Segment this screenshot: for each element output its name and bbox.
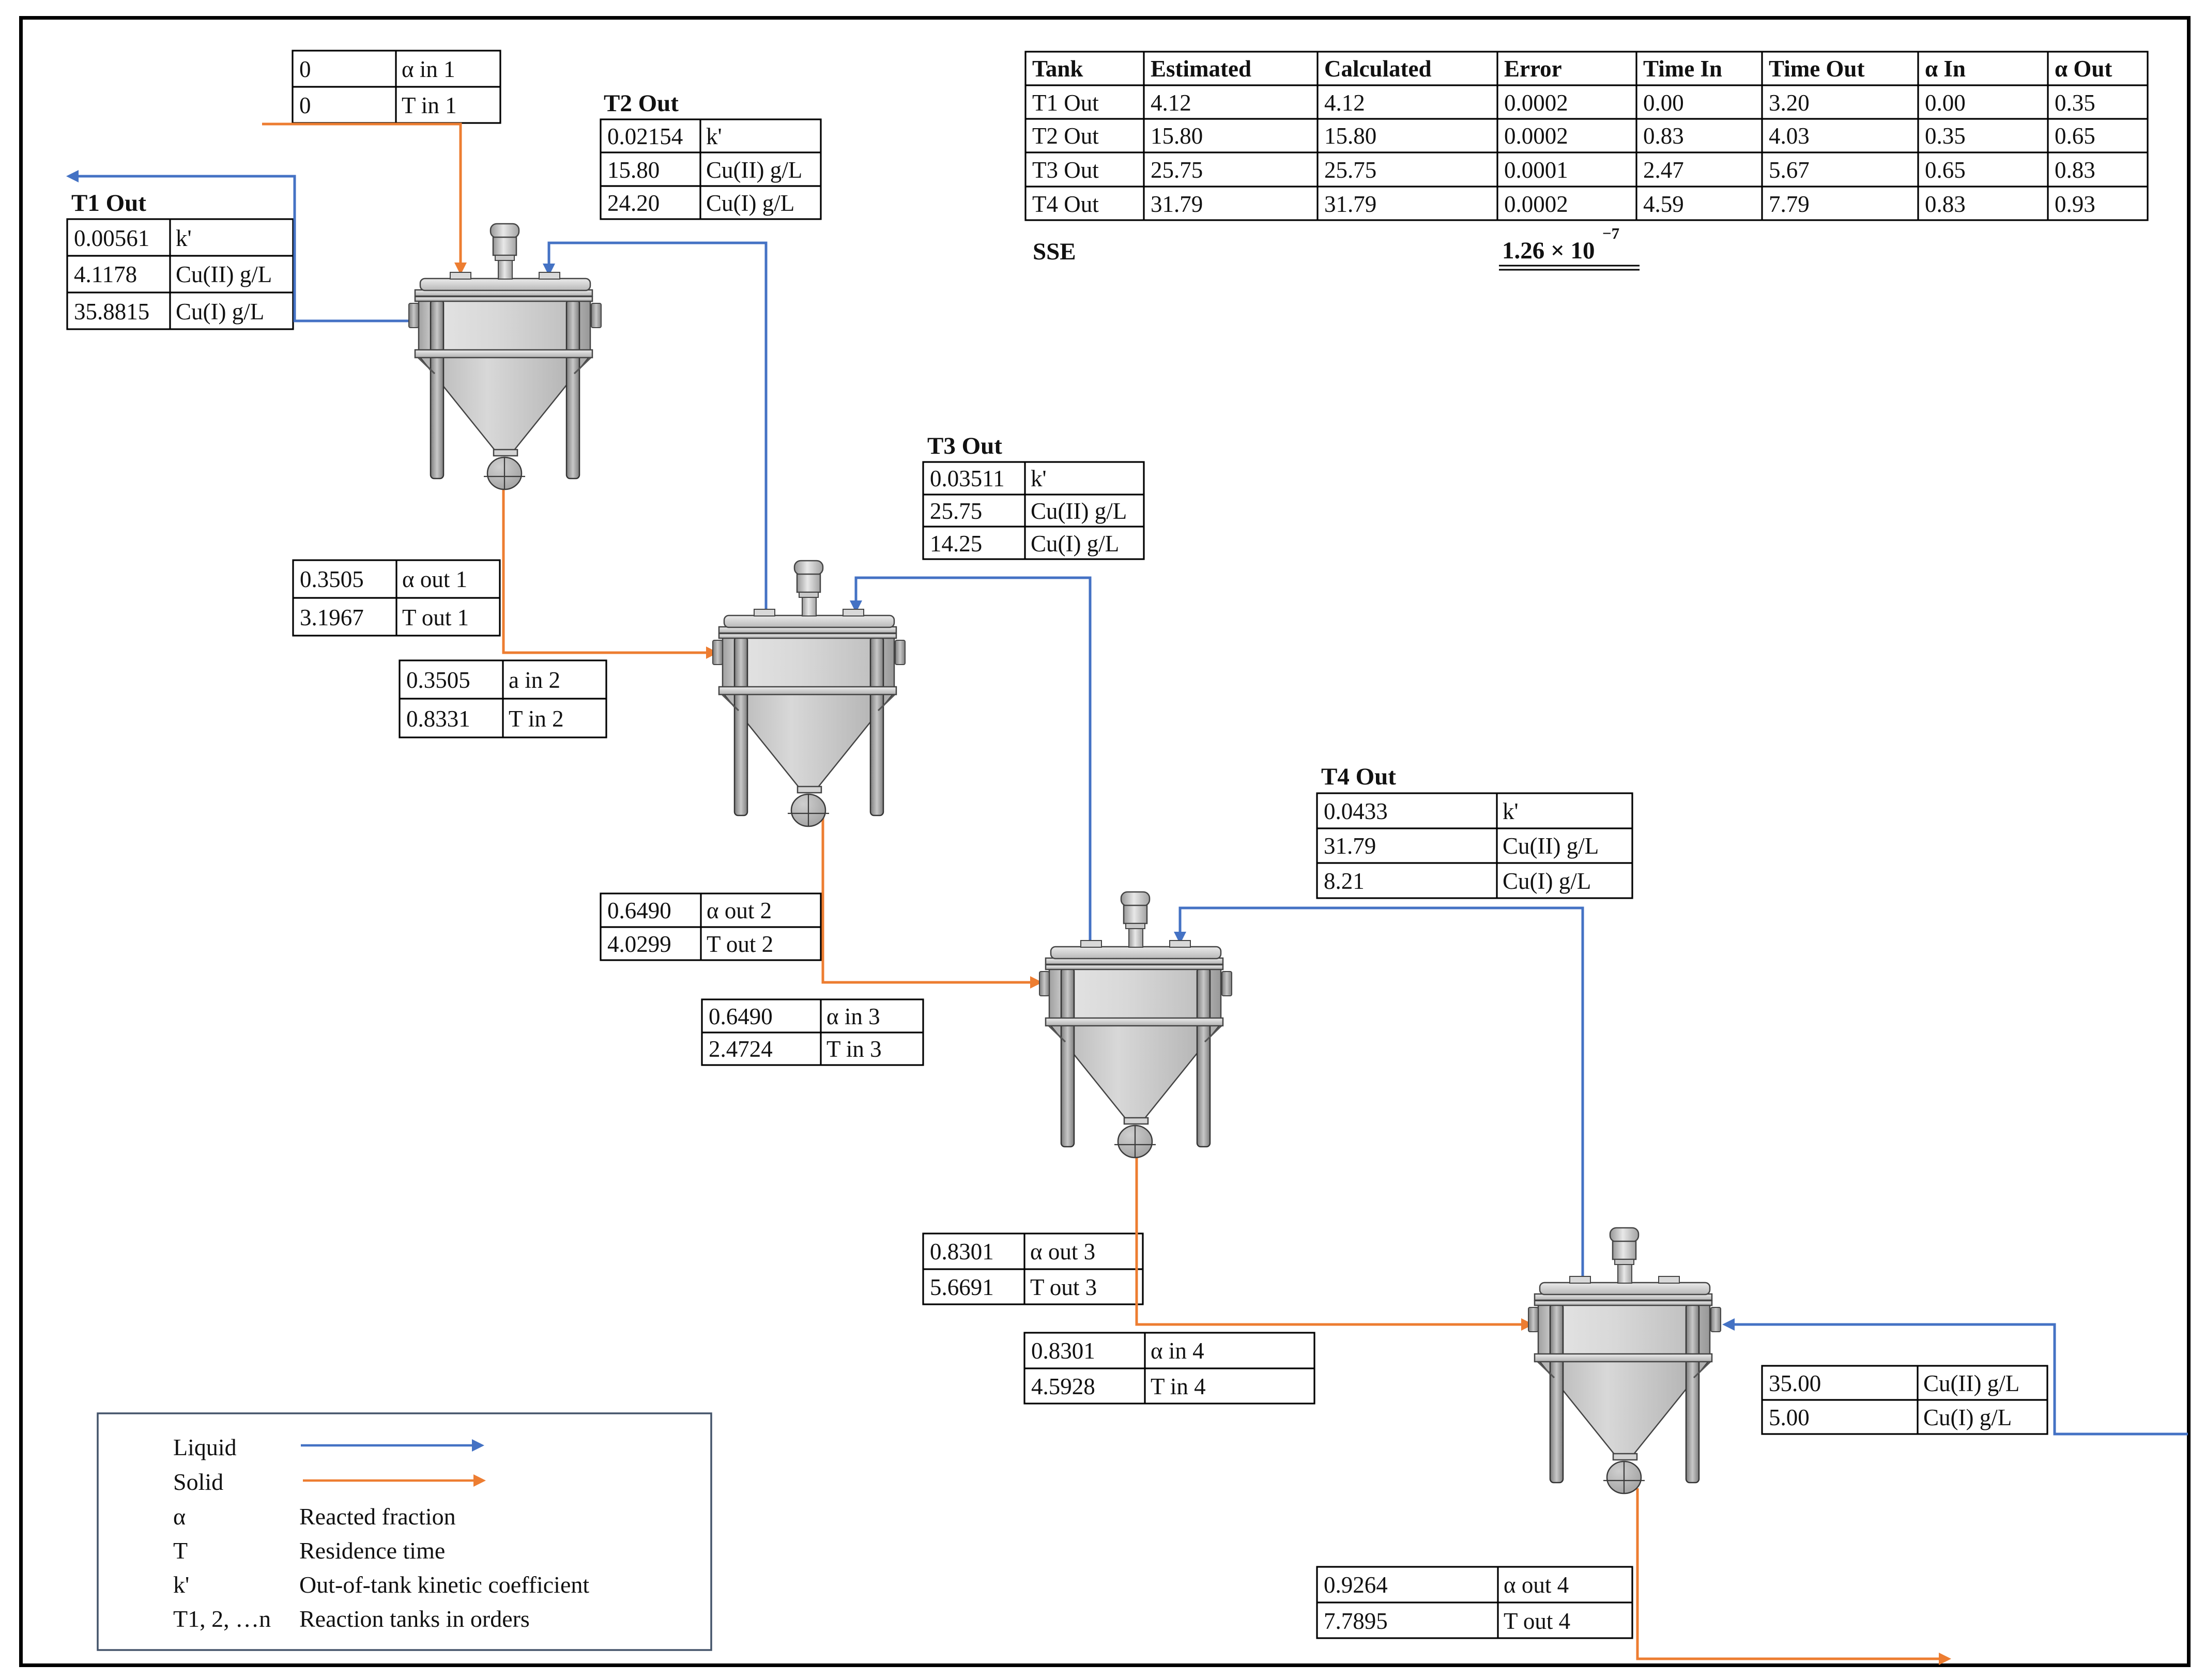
liquid line T3 to T2 xyxy=(856,578,1090,942)
svg-text:T in 4: T in 4 xyxy=(1151,1374,1206,1399)
svg-text:0.0001: 0.0001 xyxy=(1504,157,1568,183)
svg-text:α In: α In xyxy=(1925,56,1966,82)
svg-text:3.1967: 3.1967 xyxy=(300,605,364,630)
svg-text:0.8301: 0.8301 xyxy=(1031,1338,1095,1364)
table alpha-T in 1 xyxy=(293,51,500,123)
svg-text:25.75: 25.75 xyxy=(1151,157,1203,183)
liquid exit line from T1 xyxy=(79,176,408,321)
svg-text:Error: Error xyxy=(1504,56,1562,82)
svg-text:15.80: 15.80 xyxy=(1324,123,1376,149)
svg-text:0: 0 xyxy=(299,93,311,118)
table T2 Out xyxy=(601,90,821,219)
svg-text:Cu(I) g/L: Cu(I) g/L xyxy=(1923,1405,2012,1430)
svg-text:31.79: 31.79 xyxy=(1151,191,1203,217)
reaction tank T1 xyxy=(409,224,601,489)
svg-text:0.00: 0.00 xyxy=(1925,90,1966,116)
svg-text:0.03511: 0.03511 xyxy=(930,466,1005,491)
svg-text:15.80: 15.80 xyxy=(607,157,660,183)
svg-text:Cu(II) g/L: Cu(II) g/L xyxy=(706,157,802,183)
svg-text:3.20: 3.20 xyxy=(1769,90,1810,116)
results table xyxy=(1025,52,2148,220)
svg-text:a in 2: a in 2 xyxy=(509,667,560,693)
svg-text:Estimated: Estimated xyxy=(1151,56,1251,82)
solid line T2 to T3 xyxy=(823,811,1030,982)
svg-text:0.8331: 0.8331 xyxy=(406,706,470,732)
svg-text:T4 Out: T4 Out xyxy=(1032,191,1099,217)
svg-text:0.6490: 0.6490 xyxy=(607,898,671,923)
svg-text:α in 4: α in 4 xyxy=(1151,1338,1204,1364)
svg-text:T3 Out: T3 Out xyxy=(927,433,1002,459)
liquid line T4 to T3 xyxy=(1180,908,1583,1278)
svg-text:15.80: 15.80 xyxy=(1151,123,1203,149)
svg-text:0.83: 0.83 xyxy=(2055,157,2095,183)
svg-text:5.67: 5.67 xyxy=(1769,157,1810,183)
svg-text:k': k' xyxy=(1031,466,1047,491)
svg-text:−7: −7 xyxy=(1602,224,1619,242)
svg-text:Cu(I) g/L: Cu(I) g/L xyxy=(1503,868,1591,894)
svg-text:0.00: 0.00 xyxy=(1643,90,1684,116)
svg-text:T4 Out: T4 Out xyxy=(1321,763,1396,790)
svg-text:α in 1: α in 1 xyxy=(402,56,455,82)
svg-text:α Out: α Out xyxy=(2055,56,2112,82)
table T3 Out xyxy=(923,433,1144,559)
svg-text:2.47: 2.47 xyxy=(1643,157,1684,183)
svg-text:T out 2: T out 2 xyxy=(707,931,773,957)
svg-text:0.0002: 0.0002 xyxy=(1504,191,1568,217)
svg-text:7.79: 7.79 xyxy=(1769,191,1810,217)
svg-text:T: T xyxy=(173,1537,188,1564)
svg-text:4.0299: 4.0299 xyxy=(607,931,671,957)
table out 1 xyxy=(293,560,500,636)
svg-text:Cu(II) g/L: Cu(II) g/L xyxy=(1031,498,1127,524)
svg-text:4.1178: 4.1178 xyxy=(74,261,137,287)
svg-text:0.3505: 0.3505 xyxy=(300,566,364,592)
svg-text:4.5928: 4.5928 xyxy=(1031,1374,1095,1399)
svg-text:0.8301: 0.8301 xyxy=(930,1239,994,1265)
svg-text:T in 3: T in 3 xyxy=(826,1036,882,1062)
solid feed line into T1 xyxy=(262,124,461,263)
liquid line T2 to T1 xyxy=(549,243,766,611)
svg-text:0.0433: 0.0433 xyxy=(1324,798,1388,824)
reaction tank T4 xyxy=(1528,1228,1721,1493)
svg-text:α out 1: α out 1 xyxy=(402,566,467,592)
svg-text:25.75: 25.75 xyxy=(930,498,982,524)
svg-text:Cu(I) g/L: Cu(I) g/L xyxy=(706,190,794,216)
svg-text:k': k' xyxy=(173,1571,189,1598)
svg-text:24.20: 24.20 xyxy=(607,190,660,216)
table in 4 xyxy=(1024,1333,1314,1404)
svg-text:T out 3: T out 3 xyxy=(1030,1274,1097,1300)
svg-text:Time In: Time In xyxy=(1643,56,1722,82)
svg-text:0.9264: 0.9264 xyxy=(1324,1572,1388,1598)
svg-text:k': k' xyxy=(1503,798,1519,824)
table out 4 xyxy=(1317,1567,1632,1638)
svg-text:5.6691: 5.6691 xyxy=(930,1274,994,1300)
svg-text:Time Out: Time Out xyxy=(1769,56,1864,82)
svg-text:4.12: 4.12 xyxy=(1151,90,1191,116)
solid line T3 to T4 xyxy=(1137,1143,1521,1324)
svg-text:0.65: 0.65 xyxy=(2055,123,2095,149)
svg-text:Residence time: Residence time xyxy=(299,1537,445,1564)
SSE value xyxy=(1499,224,1640,270)
svg-text:8.21: 8.21 xyxy=(1324,868,1365,894)
svg-text:T1, 2, …n: T1, 2, …n xyxy=(173,1606,271,1632)
svg-text:35.00: 35.00 xyxy=(1769,1370,1821,1396)
svg-text:25.75: 25.75 xyxy=(1324,157,1376,183)
svg-text:Cu(II) g/L: Cu(II) g/L xyxy=(1923,1370,2019,1396)
svg-text:31.79: 31.79 xyxy=(1324,833,1376,859)
svg-text:0.6490: 0.6490 xyxy=(709,1004,773,1029)
svg-text:α: α xyxy=(173,1503,186,1530)
svg-text:Cu(II) g/L: Cu(II) g/L xyxy=(1503,833,1599,859)
svg-text:α out 4: α out 4 xyxy=(1504,1572,1569,1598)
table out 2 xyxy=(601,893,821,960)
svg-text:0.93: 0.93 xyxy=(2055,191,2095,217)
svg-text:T2 Out: T2 Out xyxy=(604,90,679,117)
table in 3 xyxy=(702,999,923,1065)
svg-text:k': k' xyxy=(176,225,192,251)
svg-text:T1 Out: T1 Out xyxy=(1032,90,1099,116)
svg-text:Reacted fraction: Reacted fraction xyxy=(299,1503,456,1530)
svg-text:1.26 × 10: 1.26 × 10 xyxy=(1502,237,1595,264)
table T4 Out xyxy=(1317,763,1632,898)
svg-text:0.35: 0.35 xyxy=(2055,90,2095,116)
svg-text:0.83: 0.83 xyxy=(1925,191,1966,217)
svg-text:k': k' xyxy=(706,124,722,149)
solid exit line from T4 xyxy=(1637,1488,1939,1659)
liquid feed line into T4 xyxy=(1735,1324,2188,1434)
svg-text:5.00: 5.00 xyxy=(1769,1405,1810,1430)
table feed liquor xyxy=(1762,1366,2047,1434)
svg-text:7.7895: 7.7895 xyxy=(1324,1608,1388,1634)
svg-text:0.65: 0.65 xyxy=(1925,157,1966,183)
svg-text:T3 Out: T3 Out xyxy=(1032,157,1099,183)
svg-text:0: 0 xyxy=(299,56,311,82)
svg-text:T in 1: T in 1 xyxy=(402,93,457,118)
svg-text:Tank: Tank xyxy=(1032,56,1083,82)
svg-text:0.02154: 0.02154 xyxy=(607,124,683,149)
svg-text:0.0002: 0.0002 xyxy=(1504,90,1568,116)
svg-text:T1 Out: T1 Out xyxy=(71,190,146,217)
solid line T1 to T2 xyxy=(503,486,706,653)
svg-text:Liquid: Liquid xyxy=(173,1434,237,1460)
svg-text:14.25: 14.25 xyxy=(930,531,982,557)
svg-text:T2 Out: T2 Out xyxy=(1032,123,1099,149)
svg-text:2.4724: 2.4724 xyxy=(709,1036,773,1062)
svg-text:4.03: 4.03 xyxy=(1769,123,1810,149)
svg-text:0.3505: 0.3505 xyxy=(406,667,470,693)
svg-text:31.79: 31.79 xyxy=(1324,191,1376,217)
svg-text:T out 1: T out 1 xyxy=(402,605,469,630)
table T1 Out xyxy=(67,190,293,329)
svg-text:T out 4: T out 4 xyxy=(1504,1608,1570,1634)
svg-text:Reaction tanks in orders: Reaction tanks in orders xyxy=(299,1606,530,1632)
svg-text:0.83: 0.83 xyxy=(1643,123,1684,149)
reaction tank T2 xyxy=(713,561,905,826)
svg-text:4.59: 4.59 xyxy=(1643,191,1684,217)
svg-text:0.35: 0.35 xyxy=(1925,123,1966,149)
reaction tank T3 xyxy=(1039,892,1232,1158)
svg-text:α out 2: α out 2 xyxy=(707,898,772,923)
svg-text:Cu(II) g/L: Cu(II) g/L xyxy=(176,261,272,287)
svg-text:Cu(I) g/L: Cu(I) g/L xyxy=(176,299,264,325)
svg-text:T in 2: T in 2 xyxy=(509,706,564,732)
svg-text:Cu(I) g/L: Cu(I) g/L xyxy=(1031,531,1119,557)
svg-text:α in 3: α in 3 xyxy=(826,1004,880,1029)
svg-text:Out-of-tank kinetic coefficien: Out-of-tank kinetic coefficient xyxy=(299,1571,589,1598)
svg-text:Calculated: Calculated xyxy=(1324,56,1432,82)
svg-text:35.8815: 35.8815 xyxy=(74,299,149,325)
table out 3 xyxy=(923,1234,1143,1304)
svg-text:0.00561: 0.00561 xyxy=(74,225,149,251)
legend box xyxy=(98,1413,711,1650)
svg-text:0.0002: 0.0002 xyxy=(1504,123,1568,149)
svg-text:Solid: Solid xyxy=(173,1469,223,1495)
svg-text:α out 3: α out 3 xyxy=(1030,1239,1095,1265)
svg-text:4.12: 4.12 xyxy=(1324,90,1365,116)
svg-text:SSE: SSE xyxy=(1033,238,1076,265)
table in 2 xyxy=(400,660,606,737)
